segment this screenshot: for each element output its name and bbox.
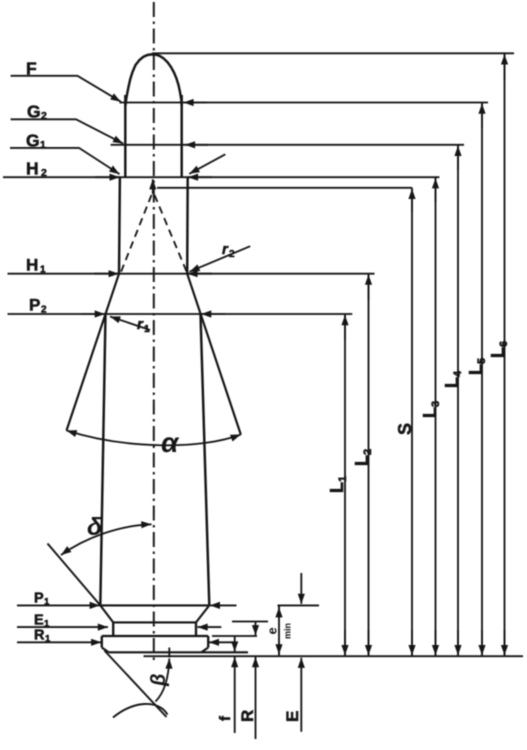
svg-text:L4: L4 xyxy=(442,370,464,388)
G2 underline + leader xyxy=(11,119,124,143)
svg-text:L1: L1 xyxy=(327,476,349,493)
L2 label xyxy=(352,449,374,466)
svg-text:L3: L3 xyxy=(420,401,442,418)
bullet right side xyxy=(180,95,182,177)
G1 label xyxy=(26,131,46,152)
H1 arrow right xyxy=(187,273,212,275)
R dim upper stub xyxy=(255,622,257,636)
svg-text:r: r xyxy=(137,316,144,333)
bevel left xyxy=(100,605,113,622)
P1 line left xyxy=(17,604,100,606)
dashed chamber cone right xyxy=(155,195,188,274)
svg-text:α: α xyxy=(161,427,180,458)
E1 line left xyxy=(17,626,108,628)
E1 label xyxy=(34,613,50,630)
tip line xyxy=(152,52,514,54)
baseline xyxy=(144,655,524,657)
f dim lower stub xyxy=(234,657,236,733)
svg-text:R: R xyxy=(34,628,45,644)
svg-text:f: f xyxy=(217,715,234,721)
H1 label xyxy=(26,256,46,276)
G2 line across xyxy=(111,144,464,146)
R label xyxy=(238,710,257,722)
E dim upper stub xyxy=(300,573,302,604)
svg-text:E: E xyxy=(34,613,44,629)
svg-text:H: H xyxy=(26,159,39,179)
R1 line left xyxy=(17,641,101,643)
H1 line across xyxy=(8,273,375,275)
P2 arrow left xyxy=(81,313,105,315)
E dim lower stub xyxy=(300,658,302,732)
e min label xyxy=(265,623,293,639)
f label xyxy=(217,715,234,721)
P1 extension right xyxy=(278,604,320,606)
L1 label xyxy=(327,476,349,493)
L4 label xyxy=(442,370,464,388)
beta arc xyxy=(156,659,170,702)
L2 vertical xyxy=(368,274,370,657)
L1 vertical xyxy=(344,314,346,656)
svg-text:P: P xyxy=(34,591,44,607)
body left xyxy=(100,314,105,605)
r1 label xyxy=(137,316,150,335)
rim chamfer left xyxy=(102,648,109,653)
G1 right leader xyxy=(189,154,225,174)
beta chamfer line xyxy=(104,651,166,718)
shoulder + alpha line left xyxy=(67,274,120,431)
rim bottom + extension xyxy=(109,651,248,653)
H2 arrow right xyxy=(188,176,212,178)
rim right side xyxy=(207,636,209,648)
P1 label xyxy=(34,591,50,608)
head radius arc xyxy=(113,704,168,718)
body right xyxy=(201,314,210,605)
G2 right arrow xyxy=(185,144,208,146)
S label xyxy=(395,423,415,435)
groove right wall xyxy=(195,622,197,636)
F underline + leader xyxy=(11,76,121,102)
svg-text:E: E xyxy=(283,711,302,722)
svg-text:S: S xyxy=(395,423,415,435)
L3 vertical xyxy=(435,177,437,656)
delta label xyxy=(87,513,103,541)
centerline xyxy=(153,2,155,663)
bullet ogive xyxy=(125,54,181,106)
L6 label xyxy=(488,341,510,358)
R dim lower stub xyxy=(255,657,257,739)
e min dim line xyxy=(278,605,280,656)
R1 line right xyxy=(209,641,234,643)
groove top extension xyxy=(232,621,268,623)
rim chamfer right xyxy=(202,648,209,653)
rim top across xyxy=(102,635,208,637)
svg-text:δ: δ xyxy=(87,513,103,541)
bevel right xyxy=(196,605,209,622)
P1 line across xyxy=(100,604,209,606)
P2 line across xyxy=(8,313,353,315)
svg-text:e: e xyxy=(265,627,280,634)
E1 line right xyxy=(198,626,222,628)
apex arrow xyxy=(152,179,154,194)
S vertical xyxy=(411,188,413,656)
svg-text:L5: L5 xyxy=(466,358,488,375)
P2 label xyxy=(29,296,47,316)
beta arrow stub xyxy=(168,648,170,658)
groove left wall xyxy=(112,622,114,636)
svg-text:R: R xyxy=(238,710,257,722)
L5 label xyxy=(466,358,488,375)
alpha label xyxy=(161,427,180,458)
svg-text:P: P xyxy=(29,296,40,315)
svg-text:L6: L6 xyxy=(488,341,510,358)
L4 vertical xyxy=(457,145,459,656)
G1 underline + leader xyxy=(10,148,120,174)
G2 label xyxy=(27,102,47,123)
neck right wall xyxy=(186,177,189,274)
L5 vertical xyxy=(481,103,483,657)
svg-text:H: H xyxy=(26,256,38,275)
rim top extension xyxy=(212,635,257,637)
S line xyxy=(157,187,412,189)
svg-text:1: 1 xyxy=(40,139,46,151)
L3 label xyxy=(420,401,442,418)
r2 label xyxy=(222,241,235,260)
r1 leader xyxy=(110,317,150,331)
F label xyxy=(26,59,37,79)
alpha arc xyxy=(67,431,241,446)
L6 vertical xyxy=(504,53,506,656)
R1 label xyxy=(34,628,51,645)
svg-text:min: min xyxy=(283,623,293,639)
shoulder + alpha line right xyxy=(187,274,241,435)
F line across xyxy=(120,102,489,104)
r2 leader xyxy=(190,246,251,272)
P2 arrow right xyxy=(201,313,225,315)
H2 arrow left xyxy=(95,176,120,178)
svg-text:L2: L2 xyxy=(352,449,374,466)
beta label xyxy=(148,674,170,687)
groove top across xyxy=(113,621,196,623)
delta arc xyxy=(61,524,152,555)
F right arrow xyxy=(183,102,207,104)
neck left wall xyxy=(118,177,121,274)
dashed chamber cone left xyxy=(120,195,151,274)
bullet left side xyxy=(124,95,126,177)
f dim upper stub xyxy=(234,636,236,652)
P1 line right xyxy=(210,604,237,606)
H1 arrow left xyxy=(94,273,119,275)
rim left side xyxy=(101,636,103,648)
delta slant line xyxy=(48,544,101,606)
E label xyxy=(283,711,302,722)
svg-text:β: β xyxy=(148,674,170,687)
H2/mouth line across xyxy=(3,176,439,178)
H2 label xyxy=(26,159,47,180)
